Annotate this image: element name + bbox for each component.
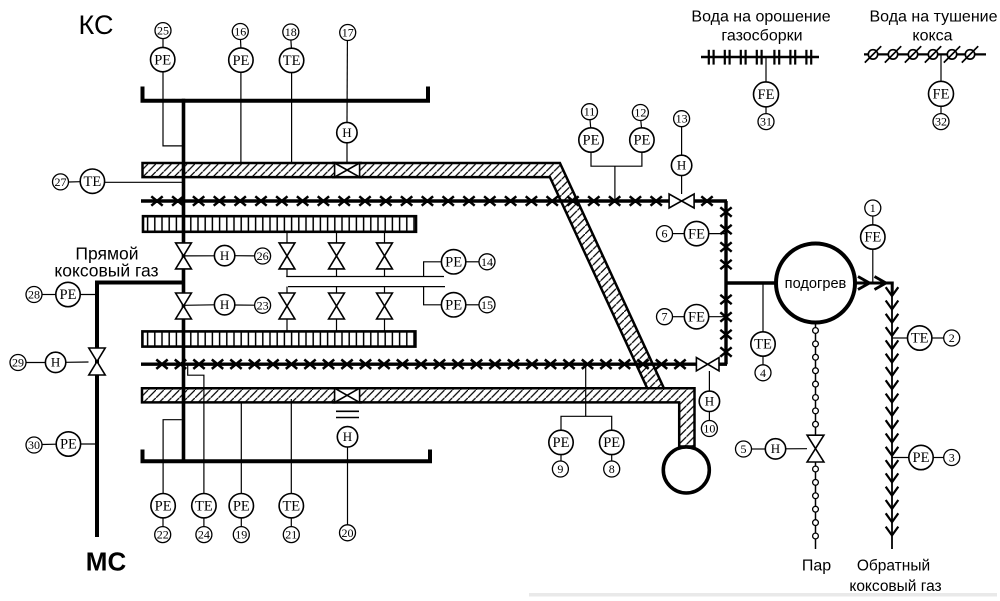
hand actuator H 17 bbox=[337, 122, 357, 142]
scan artifact strip at bottom bbox=[529, 593, 997, 597]
svg-text:FE: FE bbox=[933, 87, 950, 103]
wire from FE 1 down to outlet line bbox=[872, 249, 874, 283]
valve on upper heated line (below H 13) bbox=[669, 194, 694, 208]
instrument 20 bbox=[340, 525, 356, 541]
wire from PE 25 to pipe bbox=[163, 72, 182, 146]
svg-text:FE: FE bbox=[688, 309, 705, 325]
hand actuator H 20 bbox=[337, 427, 357, 447]
wire from H 29 to valve bbox=[66, 361, 89, 363]
svg-text:PE: PE bbox=[445, 298, 462, 314]
damper valve in bar 1 (below H 17) bbox=[332, 162, 362, 179]
svg-text:4: 4 bbox=[760, 366, 766, 380]
svg-text:24: 24 bbox=[198, 528, 210, 542]
svg-text:1: 1 bbox=[870, 201, 876, 215]
lower heated line with X marks bbox=[141, 360, 727, 369]
svg-text:14: 14 bbox=[481, 255, 493, 269]
svg-text:20: 20 bbox=[342, 526, 354, 540]
valve on direct gas pipe bbox=[89, 348, 105, 375]
label steam (Пар) bbox=[802, 558, 831, 575]
lower manifold valve 1 stub to rail bbox=[286, 287, 288, 294]
svg-text:H: H bbox=[677, 158, 686, 173]
svg-text:коксовый газ: коксовый газ bbox=[54, 261, 158, 281]
svg-text:27: 27 bbox=[55, 175, 67, 189]
top gas header with turned-up ends bbox=[143, 87, 429, 101]
wire from PE 19 to bar 3 bbox=[240, 402, 242, 493]
lower manifold valve 3 stub to rail bbox=[384, 287, 386, 294]
wire from 17 to H and valve bbox=[346, 41, 348, 163]
wire rail to PE 15 bbox=[424, 287, 442, 305]
instrument PE 25 bbox=[151, 23, 175, 72]
wire from quench line to FE 32 bbox=[940, 55, 942, 81]
instrument FE 7 bbox=[657, 305, 709, 329]
wire from TE 18 to bar 1 bbox=[291, 73, 293, 163]
collector bar 3 with down-turned end (hatched) bbox=[142, 388, 695, 446]
svg-text:31: 31 bbox=[760, 115, 772, 129]
wire from irrigation line to FE 31 bbox=[765, 58, 767, 82]
svg-text:16: 16 bbox=[234, 25, 246, 39]
quench water line with crossed-circle marks bbox=[864, 46, 986, 62]
svg-text:газосборки: газосборки bbox=[721, 28, 802, 45]
wire from valve to H 10 bbox=[708, 371, 710, 391]
direct coke gas pipe (to MC) bbox=[97, 283, 184, 538]
lower manifold valve 1 bbox=[279, 293, 295, 319]
wire from heater pipe to TE 4 bbox=[762, 283, 764, 333]
svg-text:28: 28 bbox=[28, 288, 40, 302]
wire from PE 28 to gas pipe bbox=[80, 294, 97, 296]
wire from FE 7 to vertical heated line bbox=[709, 316, 726, 318]
svg-text:FE: FE bbox=[758, 87, 775, 103]
svg-text:TE: TE bbox=[84, 174, 102, 190]
upper manifold valve 2 bbox=[329, 243, 345, 269]
upper manifold valve 3 stub to bar 2 bbox=[384, 232, 386, 243]
upper manifold valve 1 stub to rail bbox=[286, 269, 288, 277]
instrument FE 32 bbox=[929, 81, 954, 129]
svg-text:9: 9 bbox=[557, 462, 563, 476]
vertical heated line with X marks bbox=[720, 201, 731, 364]
hand switch H 29 bbox=[10, 352, 66, 372]
svg-text:15: 15 bbox=[481, 298, 493, 312]
manifold wire for PE 9 and PE 8 bbox=[561, 416, 612, 430]
label water for gas-collector irrigation (Вода на орошение газосборки) bbox=[691, 9, 830, 45]
svg-text:PE: PE bbox=[553, 435, 570, 451]
instrument PE 22 bbox=[151, 494, 175, 543]
instrument PE 11 bbox=[579, 104, 603, 153]
valve on lower heated line (above H 10) bbox=[696, 358, 719, 371]
svg-text:13: 13 bbox=[676, 112, 688, 126]
instrument PE 3 bbox=[909, 445, 960, 469]
svg-text:PE: PE bbox=[583, 133, 600, 149]
valve V2 on main pipe bbox=[176, 293, 192, 319]
svg-text:17: 17 bbox=[342, 26, 354, 40]
wire from return line to PE 3 bbox=[892, 457, 909, 459]
lower manifold valve 2 bbox=[329, 293, 345, 319]
lower manifold valve 2 stub to bar 4 bbox=[336, 319, 338, 331]
instrument PE 15 bbox=[441, 293, 495, 317]
wire from TE 21 to bar 3 bbox=[290, 399, 292, 494]
irrigation water line with tick marks bbox=[701, 50, 819, 65]
svg-text:5: 5 bbox=[741, 442, 747, 456]
steam valve bbox=[807, 435, 824, 462]
lower manifold rail bbox=[288, 286, 445, 288]
svg-text:3: 3 bbox=[949, 451, 955, 465]
return coke gas line with arrowheads bbox=[886, 283, 899, 549]
svg-text:8: 8 bbox=[609, 462, 615, 476]
separator vessel at duct end bbox=[663, 447, 709, 493]
instrument FE 1 bbox=[861, 200, 885, 249]
label direct coke gas (Прямой коксовый газ) bbox=[54, 244, 158, 281]
wire rail to PE 14 bbox=[424, 262, 442, 277]
svg-text:22: 22 bbox=[157, 528, 169, 542]
instrument PE 12 bbox=[630, 105, 654, 153]
lower manifold valve 3 bbox=[377, 293, 393, 319]
instrument TE 2 bbox=[908, 326, 960, 350]
heater circle (подогрев) bbox=[776, 244, 855, 323]
lower manifold valve 2 stub to rail bbox=[336, 287, 338, 294]
svg-text:H: H bbox=[342, 125, 351, 140]
node KC label (КС) bbox=[79, 10, 114, 40]
label water for coke quenching (Вода на тушение кокса) bbox=[870, 9, 998, 45]
svg-text:PE: PE bbox=[60, 287, 77, 303]
svg-text:18: 18 bbox=[285, 25, 297, 39]
svg-text:32: 32 bbox=[935, 115, 947, 129]
svg-text:Вода на тушение: Вода на тушение bbox=[870, 9, 998, 26]
instrument PE 19 bbox=[229, 494, 253, 543]
instrument PE 9 bbox=[549, 430, 573, 477]
svg-text:кокса: кокса bbox=[912, 28, 952, 45]
instrument TE 21 bbox=[279, 494, 303, 543]
instrument 17 bbox=[340, 25, 356, 41]
wire from TE 27 to pipe bbox=[105, 181, 184, 183]
wire from return line to TE 2 bbox=[892, 337, 908, 339]
svg-text:TE: TE bbox=[911, 331, 929, 347]
hand actuator H 13 bbox=[671, 155, 691, 175]
instrument TE 24 bbox=[192, 494, 216, 543]
upper manifold rail bbox=[286, 276, 444, 278]
instrument PE 30 bbox=[26, 432, 81, 456]
instrument PE 8 bbox=[600, 430, 624, 477]
wire stem PE9/PE8 to lower heated line bbox=[585, 364, 587, 416]
wire valve V1 to H 26 bbox=[184, 255, 214, 257]
svg-text:TE: TE bbox=[282, 498, 300, 514]
hand actuator H 5 bbox=[736, 439, 786, 459]
hand actuator H 26 bbox=[214, 245, 270, 265]
svg-text:МС: МС bbox=[86, 547, 127, 577]
upper manifold valve 2 stub to rail bbox=[336, 269, 338, 277]
wire from PE 22 to pipe bbox=[163, 420, 182, 494]
svg-text:2: 2 bbox=[949, 331, 955, 345]
svg-text:21: 21 bbox=[285, 528, 297, 542]
svg-text:PE: PE bbox=[233, 498, 250, 514]
lower manifold valve 1 stub to bar 4 bbox=[286, 319, 288, 331]
instrument 10 bbox=[701, 412, 717, 437]
svg-text:Пар: Пар bbox=[802, 558, 831, 575]
upper manifold valve 3 bbox=[377, 243, 393, 269]
svg-text:подогрев: подогрев bbox=[785, 276, 847, 292]
svg-text:Обратный: Обратный bbox=[857, 558, 930, 575]
wire from H 20 to tag 20 bbox=[347, 447, 349, 525]
instrument PE 14 bbox=[441, 250, 495, 274]
svg-text:H: H bbox=[220, 297, 229, 312]
wire from FE 6 to vertical heated line bbox=[709, 233, 726, 235]
instrument FE 6 bbox=[657, 221, 709, 245]
svg-text:11: 11 bbox=[584, 105, 596, 119]
svg-text:26: 26 bbox=[257, 249, 269, 263]
svg-text:23: 23 bbox=[257, 298, 269, 312]
valve V1 on main pipe bbox=[176, 243, 192, 269]
svg-text:PE: PE bbox=[633, 133, 650, 149]
collector bar 2 (vertical hatch) bbox=[143, 216, 416, 232]
collector bar 4 (vertical hatch) bbox=[142, 331, 415, 346]
steam line from heater (Пар) bbox=[813, 323, 819, 550]
wire from H 5 to steam valve bbox=[786, 448, 807, 450]
wire from 13 through H to valve bbox=[681, 127, 683, 194]
upper manifold valve 1 stub to bar 2 bbox=[286, 232, 288, 243]
instrument FE 31 bbox=[754, 82, 779, 130]
instrument 13 bbox=[674, 111, 690, 127]
svg-text:FE: FE bbox=[688, 226, 705, 242]
diaphragm symbol under bar-3 valve bbox=[336, 411, 359, 417]
hand actuator H 23 bbox=[214, 295, 270, 315]
upper heated line with X marks bbox=[141, 196, 727, 205]
instrument PE 28 bbox=[26, 282, 80, 306]
heater outlet line with flow arrows bbox=[855, 277, 894, 296]
svg-text:H: H bbox=[705, 394, 714, 409]
hand actuator H 10 bbox=[699, 391, 719, 411]
svg-text:PE: PE bbox=[913, 450, 930, 466]
svg-text:H: H bbox=[771, 441, 780, 456]
svg-text:КС: КС bbox=[79, 10, 114, 40]
svg-text:TE: TE bbox=[754, 337, 772, 353]
wire valve V2 to H 23 bbox=[184, 304, 214, 307]
svg-text:6: 6 bbox=[662, 227, 668, 241]
instrument TE 27 bbox=[53, 169, 105, 193]
upper manifold valve 3 stub to rail bbox=[384, 269, 386, 277]
svg-text:30: 30 bbox=[28, 438, 40, 452]
svg-text:PE: PE bbox=[155, 498, 172, 514]
main vertical pipe from KC header bbox=[182, 99, 186, 461]
svg-text:19: 19 bbox=[235, 528, 247, 542]
svg-text:PE: PE bbox=[445, 255, 462, 271]
upper manifold valve 1 bbox=[279, 243, 295, 269]
svg-text:10: 10 bbox=[703, 422, 715, 436]
node MC label (МС) bbox=[86, 547, 127, 577]
instrument TE 18 bbox=[279, 24, 303, 73]
instrument TE 4 bbox=[751, 332, 775, 381]
svg-text:12: 12 bbox=[634, 106, 646, 120]
wire from PE 30 to gas pipe bbox=[81, 443, 98, 445]
svg-text:PE: PE bbox=[603, 435, 620, 451]
damper valve in bar 3 (above H 20) bbox=[332, 387, 362, 404]
pipe from heated line to heater bbox=[726, 281, 777, 285]
svg-text:PE: PE bbox=[60, 437, 77, 453]
svg-text:коксовый газ: коксовый газ bbox=[849, 578, 941, 595]
svg-text:H: H bbox=[51, 355, 60, 370]
lower manifold valve 3 stub to bar 4 bbox=[384, 319, 386, 331]
label return coke gas (Обратный коксовый газ) bbox=[849, 558, 941, 596]
svg-text:H: H bbox=[343, 429, 352, 444]
instrument PE 16 bbox=[229, 24, 253, 73]
svg-text:TE: TE bbox=[195, 498, 213, 514]
collector bar 1 with diagonal branch duct (hatched) bbox=[143, 163, 664, 388]
svg-text:Вода на орошение: Вода на орошение bbox=[691, 9, 830, 26]
svg-text:H: H bbox=[220, 248, 229, 263]
svg-text:25: 25 bbox=[157, 24, 169, 38]
wire from PE 16 to bar 1 bbox=[240, 72, 242, 163]
manifold wire for PE 11 and PE 12 bbox=[591, 152, 642, 201]
svg-text:PE: PE bbox=[154, 52, 171, 68]
wire from TE 24 to lower heated line bbox=[188, 364, 204, 494]
upper manifold valve 2 stub to bar 2 bbox=[336, 232, 338, 243]
svg-text:29: 29 bbox=[12, 356, 24, 370]
svg-text:TE: TE bbox=[283, 53, 301, 69]
svg-text:PE: PE bbox=[232, 53, 249, 69]
svg-text:FE: FE bbox=[864, 230, 881, 246]
svg-text:7: 7 bbox=[662, 310, 668, 324]
bottom gas header with turned-up ends bbox=[143, 450, 431, 462]
